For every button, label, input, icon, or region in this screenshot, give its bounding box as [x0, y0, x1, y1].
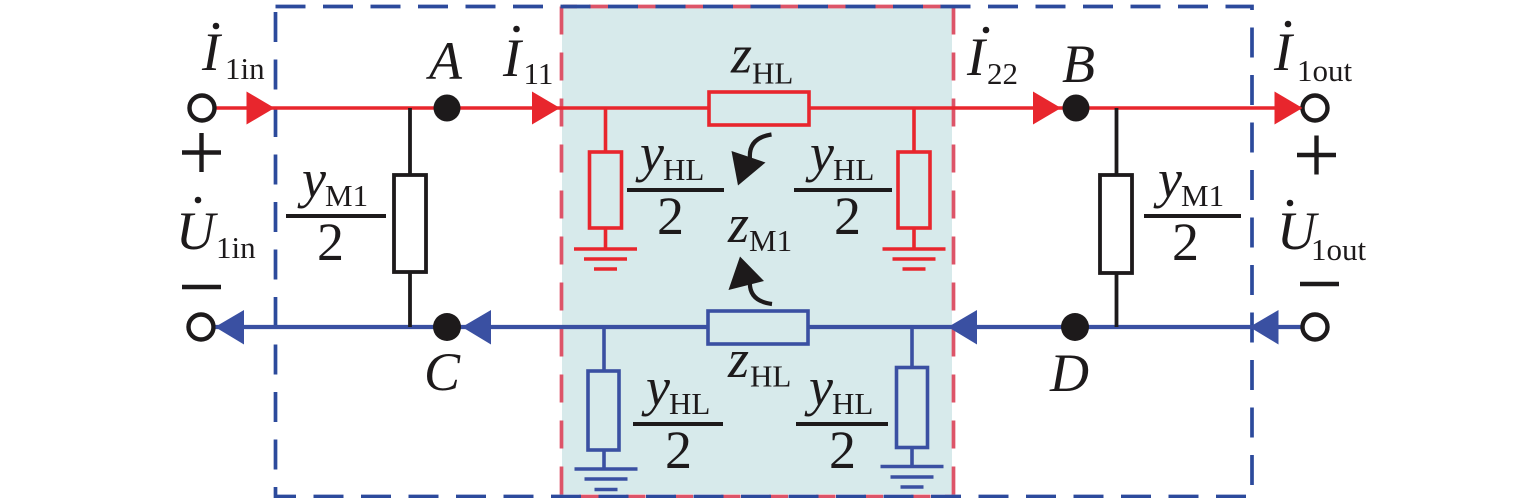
svg-text:1in: 1in: [216, 230, 256, 265]
terminal I1out (open circle): [1303, 96, 1328, 121]
mutual coupling arrow top (curved): [732, 135, 772, 186]
current arrow bottom-middle-right: [948, 310, 977, 345]
svg-text:y: y: [804, 357, 833, 417]
resistor yHL/2 bottom-right (blue): [897, 368, 928, 448]
node A junction dot: [434, 95, 461, 122]
svg-text:HL: HL: [750, 359, 791, 394]
svg-text:HL: HL: [663, 152, 704, 187]
resistor zHL top (red series box): [709, 92, 809, 125]
svg-text:C: C: [424, 342, 461, 402]
svg-text:HL: HL: [669, 386, 710, 421]
label minus right: [1300, 282, 1339, 286]
label yHL/2 top-left (fraction): [627, 123, 724, 246]
svg-text:22: 22: [987, 56, 1018, 91]
svg-text:HL: HL: [752, 56, 793, 91]
svg-text:z: z: [727, 329, 749, 389]
label zHL top: [730, 25, 793, 91]
current arrow bottom-right: [1250, 310, 1279, 345]
svg-text:I: I: [966, 27, 988, 87]
svg-text:A: A: [426, 31, 463, 91]
label plus left: [182, 133, 221, 172]
ground top-left (red): [574, 249, 637, 269]
node C junction dot: [433, 313, 461, 341]
svg-text:y: y: [805, 123, 834, 183]
red dashed border of HL region: right edge: [952, 7, 956, 497]
current arrow I22: [1033, 92, 1061, 125]
svg-text:z: z: [730, 25, 752, 85]
svg-text:HL: HL: [833, 152, 874, 187]
wire blue shunt stub right: [910, 327, 914, 368]
svg-text:M1: M1: [749, 223, 792, 258]
label plus right: [1297, 136, 1336, 175]
label I11: [502, 26, 553, 91]
wire bottom blue rail: [215, 325, 708, 329]
label U1out: [1277, 200, 1367, 267]
resistor yHL/2 top-right (red): [898, 152, 930, 228]
svg-text:2: 2: [657, 186, 684, 246]
svg-text:2: 2: [834, 186, 861, 246]
wire right shunt vertical (node B to D): [1115, 108, 1119, 175]
wire to ground top-right: [912, 228, 916, 249]
wire red shunt stub left: [604, 108, 608, 152]
svg-text:2: 2: [1172, 212, 1199, 272]
svg-text:2: 2: [317, 212, 344, 272]
svg-text:11: 11: [524, 56, 554, 91]
wire top red rail: [214, 106, 709, 110]
mutual coupling arrow bottom (curved): [729, 257, 773, 305]
wire right shunt vertical lower: [1115, 273, 1119, 327]
blue dashed outer two-port boundary: [276, 7, 1253, 497]
wire to ground bottom-left: [602, 450, 606, 469]
label I1in: [201, 22, 265, 86]
ground bottom-left (blue): [575, 469, 638, 490]
terminal U1out negative (open circle): [1303, 315, 1328, 340]
label U1in: [176, 197, 256, 265]
wire top red rail right part: [809, 106, 1303, 110]
wire left shunt vertical lower: [408, 272, 412, 327]
ground bottom-right (blue): [881, 467, 944, 488]
label minus left: [182, 285, 221, 289]
terminal I1in (open circle): [190, 96, 215, 121]
svg-text:1out: 1out: [1311, 232, 1367, 267]
current arrow at node C: [462, 310, 491, 345]
svg-text:2: 2: [665, 420, 692, 480]
current arrow bottom-left (into U1in minus): [215, 310, 244, 345]
current arrow I11: [532, 92, 560, 125]
svg-text:z: z: [727, 194, 749, 254]
svg-text:1out: 1out: [1297, 53, 1353, 88]
svg-text:y: y: [635, 123, 664, 183]
node B junction dot: [1063, 95, 1090, 122]
terminal U1in negative (open circle): [189, 315, 214, 340]
resistor yHL/2 bottom-left (blue): [588, 371, 619, 450]
label yM1/2 left (fraction): [286, 149, 386, 272]
svg-text:M1: M1: [1181, 178, 1224, 213]
label zM1: [727, 194, 792, 258]
svg-text:y: y: [297, 149, 326, 209]
node D junction dot: [1061, 313, 1089, 341]
svg-text:D: D: [1049, 343, 1089, 403]
current arrow I1in: [247, 92, 275, 125]
label yHL/2 bottom-left (fraction): [633, 357, 723, 480]
svg-text:y: y: [641, 357, 670, 417]
label yM1/2 right (fraction): [1144, 149, 1241, 272]
svg-text:y: y: [1153, 149, 1182, 209]
svg-text:I: I: [201, 22, 223, 82]
wire left shunt vertical (node A to C): [408, 108, 412, 175]
svg-text:U: U: [176, 201, 218, 261]
red dashed border of HL region: top edge dashes: [563, 5, 941, 9]
resistor zHL bottom (blue series box): [708, 311, 808, 344]
svg-text:HL: HL: [832, 386, 873, 421]
resistor yHL/2 top-left (red): [590, 152, 622, 228]
label yHL/2 bottom-right (fraction): [796, 357, 888, 480]
wire blue shunt stub left: [602, 327, 606, 371]
ground top-right (red): [883, 249, 946, 269]
label I1out: [1273, 21, 1353, 88]
label yHL/2 top-right (fraction): [794, 123, 892, 246]
resistor yM1/2 right: [1100, 175, 1132, 273]
red dashed border of HL region: bottom edge dashes: [579, 495, 952, 499]
svg-text:I: I: [1273, 22, 1295, 82]
wire bottom blue rail right part: [808, 325, 1302, 329]
resistor yM1/2 left: [394, 175, 426, 272]
svg-text:M1: M1: [325, 178, 368, 213]
label I22: [966, 27, 1018, 91]
svg-text:I: I: [502, 28, 524, 88]
label zHL bottom: [727, 329, 791, 394]
teal shaded HL region: [562, 7, 952, 494]
wire to ground bottom-right: [910, 448, 914, 467]
current arrow I1out: [1275, 92, 1303, 125]
svg-text:1in: 1in: [225, 51, 265, 86]
svg-text:2: 2: [829, 420, 856, 480]
svg-text:B: B: [1062, 34, 1095, 94]
wire to ground top-left: [604, 228, 608, 249]
red dashed border of HL region: left edge: [560, 7, 564, 497]
wire red shunt stub right: [912, 108, 916, 152]
